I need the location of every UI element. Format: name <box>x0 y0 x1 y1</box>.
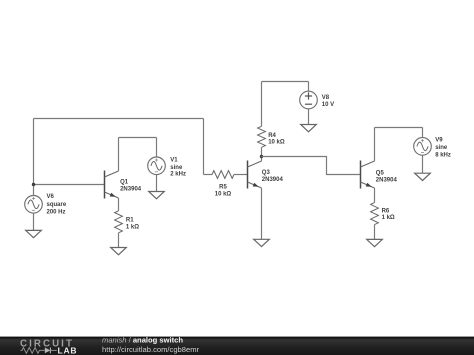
label V6 <box>47 194 67 215</box>
transistor Q5 (NPN) <box>361 161 375 189</box>
svg-text:Q3: Q3 <box>262 170 271 176</box>
wire V1 ground lead <box>156 175 158 192</box>
svg-text:1 kΩ: 1 kΩ <box>382 215 395 221</box>
svg-text:2 kHz: 2 kHz <box>170 171 186 177</box>
voltage source V1 (sine) <box>148 157 166 175</box>
wire V6 ground lead <box>33 213 35 230</box>
svg-text:V8: V8 <box>322 95 330 101</box>
resistor R6 <box>371 203 379 225</box>
resistor R4 <box>258 126 266 147</box>
wire supply top wire <box>262 81 309 83</box>
label R1 <box>126 218 139 231</box>
wire R4 top lead <box>261 82 263 127</box>
ground below V6 <box>26 230 42 237</box>
label V9 <box>435 138 451 159</box>
label R5 <box>215 185 232 198</box>
label R6 <box>382 208 395 221</box>
wire node B to Q5 base <box>262 157 361 175</box>
label Q1 <box>120 179 142 192</box>
svg-text:sine: sine <box>435 145 448 151</box>
wire R4 bottom lead <box>261 147 263 156</box>
wire Q5 emitter lead <box>374 188 376 203</box>
resistor R5 <box>212 171 234 179</box>
svg-text:R6: R6 <box>382 208 390 214</box>
transistor Q3 (NPN) <box>248 161 262 189</box>
svg-text:LAB: LAB <box>58 346 78 355</box>
wire V8 ground lead <box>308 109 310 125</box>
wire Q1 collector riser <box>118 138 120 172</box>
svg-text:10 V: 10 V <box>322 102 334 108</box>
label V1 <box>170 157 186 177</box>
svg-text:R4: R4 <box>268 133 276 139</box>
svg-text:V6: V6 <box>47 194 55 200</box>
svg-text:200 Hz: 200 Hz <box>47 209 66 215</box>
svg-text:2N3904: 2N3904 <box>120 186 142 192</box>
wire R5 right lead (Q3 base) <box>234 174 248 176</box>
label R4 <box>268 133 285 146</box>
junction node A (V6 / Q1 base) <box>32 183 35 186</box>
wire V9 top lead <box>422 128 424 138</box>
svg-text:square: square <box>47 202 67 208</box>
svg-text:2N3904: 2N3904 <box>376 178 398 184</box>
transistor Q1 (NPN) <box>105 171 119 199</box>
resistor R1 <box>115 211 123 233</box>
svg-text:V1: V1 <box>170 157 178 163</box>
svg-text:Q5: Q5 <box>376 171 385 177</box>
voltage source V9 (sine) <box>414 138 432 156</box>
svg-text:sine: sine <box>170 165 183 171</box>
svg-text:10 kΩ: 10 kΩ <box>268 140 285 146</box>
wire Q1 collector to V1 top <box>119 137 157 139</box>
ground below Q3 emitter <box>254 239 270 246</box>
logo diode <box>45 348 57 354</box>
wire loop right vertical (to R5) <box>203 119 205 175</box>
svg-text:R1: R1 <box>126 218 134 224</box>
wire R5 left lead <box>204 174 213 176</box>
ground below V9 <box>415 173 431 180</box>
svg-text:1 kΩ: 1 kΩ <box>126 225 139 231</box>
wire R1 ground lead <box>118 233 120 248</box>
label Q3 <box>262 170 284 183</box>
svg-text:V9: V9 <box>435 138 443 144</box>
ground below V8 <box>301 125 317 132</box>
wire Q5 collector riser <box>374 128 376 162</box>
wire Q1 base wire <box>34 184 105 186</box>
svg-text:10 kΩ: 10 kΩ <box>215 192 232 198</box>
svg-text:manish / analog switch: manish / analog switch <box>102 335 183 344</box>
ground below R6 <box>367 239 383 246</box>
wire V8 top lead <box>308 82 310 92</box>
wire Q5 collector to V9 top <box>375 127 423 129</box>
svg-text:http://circuitlab.com/cgb8emr: http://circuitlab.com/cgb8emr <box>102 345 200 354</box>
wire V9 ground lead <box>422 155 424 173</box>
svg-text:R5: R5 <box>219 185 227 191</box>
logo resistor zigzag <box>21 348 45 354</box>
wire Q3 emitter fall <box>261 188 263 239</box>
svg-text:8 kHz: 8 kHz <box>435 152 451 158</box>
junction node B (Q3 collector / R4) <box>260 155 263 158</box>
wire V1 top lead <box>156 138 158 158</box>
ground below R1 <box>111 248 127 255</box>
wire Q1 emitter lead <box>118 198 120 211</box>
wire loop left vertical (to node A) <box>33 119 35 196</box>
wire Q3 collector riser <box>261 157 263 162</box>
ground below V1 <box>149 192 165 199</box>
voltage source V8 (DC) <box>300 91 318 109</box>
label V8 <box>322 95 334 108</box>
wire feedback loop top <box>34 118 204 120</box>
svg-text:Q1: Q1 <box>120 179 129 185</box>
label Q5 <box>376 171 398 184</box>
svg-text:2N3904: 2N3904 <box>262 177 284 183</box>
wire R6 ground lead <box>374 225 376 240</box>
voltage source V6 (sine) <box>25 196 43 214</box>
